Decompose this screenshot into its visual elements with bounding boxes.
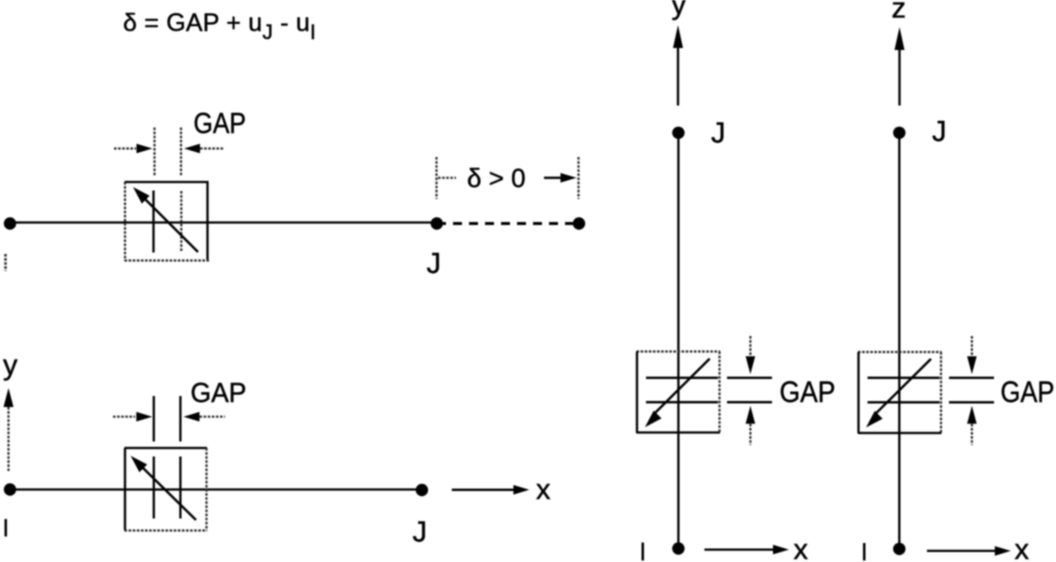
svg-text:J: J — [427, 248, 442, 280]
svg-text:GAP: GAP — [1001, 376, 1055, 409]
svg-text:GAP: GAP — [194, 108, 247, 140]
label y axis (bottom-left diagram) — [3, 350, 18, 382]
GAP dimension arrow lower (right diagram 2) — [967, 406, 977, 445]
label x axis (right diagram 1) — [794, 534, 809, 562]
y axis arrow (bottom-left diagram) — [4, 388, 14, 471]
label delta greater than zero — [467, 163, 526, 193]
svg-text:y: y — [3, 350, 18, 382]
label GAP (top diagram) — [194, 108, 247, 140]
label x axis (right diagram 2) — [1015, 534, 1030, 562]
GAP dimension arrow right (bottom-left diagram) — [184, 412, 226, 422]
contact surface line upper inside box (right diagram 1) — [646, 377, 718, 379]
svg-text:J: J — [413, 517, 428, 549]
gap element box (bottom-left diagram) — [125, 448, 208, 531]
svg-text:δ > 0: δ > 0 — [467, 163, 526, 193]
label GAP (bottom-left diagram) — [191, 377, 247, 408]
label I (right diagram 1) — [642, 543, 645, 561]
sliding direction arrow in box (top diagram) — [133, 187, 198, 252]
contact surface line lower inside box (right diagram 1) — [646, 401, 718, 403]
label I (bottom-left diagram) — [5, 519, 8, 537]
dimension tick right at open node (top diagram) — [577, 157, 579, 199]
wire J to I (right diagram 2) — [898, 133, 900, 549]
equation delta = GAP + uJ - uI — [123, 9, 316, 44]
node J (top diagram) — [431, 217, 443, 229]
svg-text:GAP: GAP — [780, 376, 836, 409]
contact surface line left inside box (bottom-left diagram) — [153, 457, 155, 519]
gap witness line upper right of box (right diagram 1) — [727, 377, 772, 379]
x axis arrow (right diagram 1) — [704, 545, 789, 555]
svg-text:x: x — [536, 474, 551, 506]
label y axis (right diagram 1) — [672, 0, 687, 21]
z axis arrow (right diagram 2) — [895, 27, 905, 106]
contact surface line lower inside box (right diagram 2) — [868, 401, 940, 403]
node I (right diagram 2) — [893, 543, 905, 555]
node I (right diagram 1) — [672, 542, 684, 554]
GAP dimension arrow upper (right diagram 2) — [967, 336, 977, 374]
contact surface line left inside box (top diagram) — [152, 191, 154, 253]
dimension tick left at J (top diagram) — [435, 157, 437, 199]
node J (right diagram 2) — [893, 127, 905, 139]
dimension arrow right (top diagram) — [544, 173, 577, 183]
svg-text:z: z — [892, 0, 907, 25]
x axis arrow (bottom-left diagram) — [452, 485, 530, 495]
label I (right diagram 2) — [863, 543, 866, 561]
node J (bottom-left diagram) — [416, 484, 428, 496]
label I (top diagram, stippled) — [4, 254, 7, 271]
contact surface line upper inside box (right diagram 2) — [868, 377, 940, 379]
sliding direction arrow in box (bottom-left diagram) — [131, 456, 196, 520]
wire I to J (top diagram) — [10, 221, 437, 223]
label GAP (right diagram 2) — [1001, 376, 1055, 409]
GAP dimension arrow right (top diagram) — [184, 144, 224, 154]
GAP dimension arrow lower (right diagram 1) — [746, 406, 756, 445]
label J (bottom-left diagram) — [413, 517, 428, 549]
sliding direction arrow in box (right diagram 1) — [645, 359, 710, 428]
svg-text:y: y — [672, 0, 687, 21]
svg-text:x: x — [794, 534, 809, 562]
sliding direction arrow in box (right diagram 2) — [866, 359, 931, 428]
wire J to I (right diagram 1) — [677, 133, 679, 549]
gap witness line left above box (bottom-left diagram) — [153, 396, 155, 442]
gap witness line upper right of box (right diagram 2) — [949, 377, 994, 379]
node I (top diagram) — [4, 217, 16, 229]
label x axis (bottom-left diagram) — [536, 474, 551, 506]
gap element box (right diagram 2) — [858, 352, 942, 433]
gap witness line lower right of box (right diagram 2) — [949, 401, 994, 403]
open node (top diagram) — [573, 217, 585, 229]
node I (bottom-left diagram) — [4, 483, 16, 495]
dashed wire J to open node (top diagram) — [437, 222, 579, 225]
svg-text:J: J — [932, 116, 947, 148]
gap witness line right above box (bottom-left diagram) — [179, 396, 181, 442]
gap witness line lower right of box (right diagram 1) — [727, 401, 772, 403]
dimension stub (top diagram) — [438, 177, 456, 179]
label J (top diagram) — [427, 248, 442, 280]
x axis arrow (right diagram 2) — [927, 546, 1011, 556]
contact surface line right inside box (top diagram, stippled) — [180, 191, 182, 251]
wire I to J (bottom-left diagram) — [10, 488, 422, 490]
GAP dimension arrow upper (right diagram 1) — [746, 336, 756, 374]
gap element box (right diagram 1) — [637, 352, 721, 434]
label z axis (right diagram 2) — [892, 0, 907, 25]
GAP dimension arrow left (bottom-left diagram) — [113, 412, 152, 422]
label GAP (right diagram 1) — [780, 376, 836, 409]
y axis arrow (right diagram 1) — [673, 25, 683, 106]
label J (right diagram 2) — [932, 116, 947, 148]
gap witness line left above box (top diagram) — [153, 128, 155, 177]
svg-text:x: x — [1015, 534, 1030, 562]
svg-text:GAP: GAP — [191, 377, 247, 408]
label J (right diagram 1) — [711, 118, 726, 150]
GAP dimension arrow left (top diagram) — [114, 144, 153, 154]
node J (right diagram 1) — [672, 127, 684, 139]
gap witness line right above box (top diagram) — [180, 128, 182, 177]
contact surface line right inside box (bottom-left diagram) — [179, 457, 181, 519]
gap element box (top diagram) — [125, 182, 210, 261]
svg-text:J: J — [711, 118, 726, 150]
